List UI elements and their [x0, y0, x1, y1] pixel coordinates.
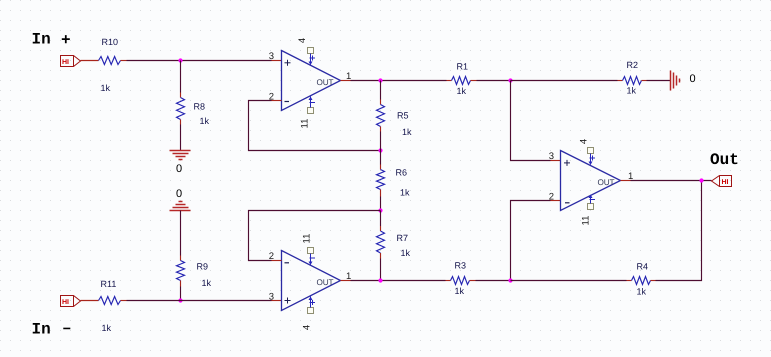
op-amp U1 pin 2 number: [269, 92, 274, 103]
svg-text:1k: 1k: [627, 86, 637, 96]
svg-text:1k: 1k: [101, 83, 111, 93]
op-amp U1 power pin 4: [308, 48, 316, 66]
connector J2 In-: [61, 296, 81, 307]
wire op2 output: [341, 280, 446, 282]
wire R4 to output node: [656, 181, 702, 281]
svg-text:3: 3: [549, 151, 554, 162]
node junction R5/R6: [378, 148, 382, 152]
resistor R7: [377, 231, 411, 259]
svg-text:1k: 1k: [457, 86, 467, 96]
svg-text:R6: R6: [396, 168, 408, 178]
svg-text:R4: R4: [637, 262, 649, 272]
wire R6 to junction: [380, 197, 382, 211]
op-amp U3 pin 11 number: [581, 216, 592, 226]
svg-text:1k: 1k: [202, 278, 212, 288]
node junction op2out/R7: [378, 278, 382, 282]
resistor R9: [177, 261, 212, 289]
svg-text:1k: 1k: [401, 248, 411, 258]
svg-text:OUT: OUT: [317, 78, 334, 87]
svg-text:R1: R1: [457, 62, 469, 72]
wire R5 to junction: [380, 132, 382, 151]
wire op2 pin2 feedback: [249, 211, 381, 261]
resistor R6: [377, 168, 411, 198]
op-amp U2 pin 11 number: [302, 234, 313, 244]
svg-text:4: 4: [579, 139, 590, 144]
svg-text:0: 0: [690, 73, 696, 85]
wire R2 to ground: [647, 80, 671, 82]
connector J1 In+: [61, 56, 81, 67]
wire R9 to In- row: [180, 287, 182, 301]
wire In+ to R10: [81, 60, 99, 62]
node junction Out/R4: [699, 178, 703, 182]
svg-text:HI: HI: [62, 299, 69, 306]
svg-text:In: In: [32, 31, 51, 49]
wire ground to R9: [180, 211, 182, 261]
svg-text:OUT: OUT: [598, 178, 615, 187]
op-amp U2: [282, 251, 341, 311]
op-amp U1 pin 4 number: [297, 38, 308, 43]
svg-text:R8: R8: [194, 102, 206, 112]
resistor R1: [452, 62, 477, 97]
svg-text:4: 4: [297, 38, 308, 43]
node junction In+/R8: [178, 58, 182, 62]
node junction In-/R9: [178, 298, 182, 302]
ground 0 above R9 (flipped): [170, 202, 191, 211]
op-amp U3 power pin 11: [588, 195, 596, 210]
ground 0 label (upper of flipped ground): [176, 188, 182, 200]
wire R10 to op1 pin3: [127, 60, 282, 62]
svg-text:–: –: [62, 320, 72, 338]
node junction R3/R4/op3pin2: [508, 278, 512, 282]
node junction R1/R2/op3pin3: [508, 78, 512, 82]
op-amp U1 pin 11 number: [300, 119, 311, 129]
node junction op1out/R5: [378, 78, 382, 82]
ground 0 label right: [690, 73, 696, 85]
op-amp U3 power pin 4: [588, 148, 596, 166]
op-amp U3 pin 2 number: [549, 192, 554, 203]
wire op1 pin2 feedback: [249, 101, 381, 151]
op-amp U3 pin 3 number: [549, 151, 554, 162]
svg-text:1k: 1k: [402, 127, 412, 137]
svg-text:0: 0: [176, 188, 182, 200]
wire junction to R8: [180, 61, 182, 98]
op-amp U1: [282, 51, 341, 111]
port Out label: [710, 151, 739, 169]
svg-text:HI: HI: [722, 179, 729, 186]
resistor R3: [451, 261, 476, 297]
wire junction to R7: [380, 211, 382, 232]
resistor R4: [632, 262, 656, 297]
op-amp U2 pin 3 number: [269, 292, 274, 303]
svg-text:2: 2: [549, 192, 554, 203]
op-amp U1 pin 3 number: [269, 51, 274, 62]
wire op1out to R1 lead: [447, 80, 452, 82]
svg-text:Out: Out: [710, 151, 739, 169]
wire R1 to junction: [477, 80, 511, 82]
op-amp U3 pin 4 number: [579, 139, 590, 144]
wire op3 output to Out: [621, 180, 712, 182]
svg-text:+: +: [61, 32, 71, 50]
svg-text:R7: R7: [397, 233, 409, 243]
wire In- to R11: [81, 300, 99, 302]
svg-text:R3: R3: [455, 261, 467, 271]
svg-text:R5: R5: [397, 111, 409, 121]
wire junction to R5: [380, 81, 382, 105]
svg-text:1k: 1k: [400, 188, 410, 198]
op-amp U2 pin 4 number: [302, 325, 313, 330]
svg-text:11: 11: [581, 216, 592, 226]
svg-text:R11: R11: [101, 279, 117, 289]
resistor R5: [377, 105, 413, 138]
op-amp U2 pin 1 number: [346, 271, 351, 282]
svg-text:0: 0: [176, 163, 182, 175]
svg-text:R2: R2: [627, 60, 639, 70]
svg-text:R10: R10: [102, 37, 119, 47]
op-amp U3 pin 1 number: [628, 171, 633, 182]
op-amp U1 power pin 11: [308, 97, 316, 114]
wire R7 to op2 output row: [380, 259, 382, 281]
op-amp U1 pin 1 number: [346, 71, 351, 82]
svg-text:HI: HI: [62, 59, 69, 66]
wire op1 output: [341, 80, 447, 82]
wire junction to R2: [511, 80, 623, 82]
port In+ label: [32, 31, 71, 50]
svg-text:1k: 1k: [637, 287, 647, 297]
connector J3 Out: [712, 176, 732, 187]
svg-text:R9: R9: [197, 262, 209, 272]
wire R3 to junction: [476, 280, 511, 282]
svg-text:11: 11: [302, 234, 313, 244]
op-amp U3: [561, 151, 621, 211]
resistor R2: [623, 60, 647, 96]
resistor R10: [99, 37, 127, 93]
svg-text:3: 3: [269, 51, 274, 62]
wire junction to R4: [511, 280, 632, 282]
wire junction to R6: [380, 151, 382, 170]
resistor R11: [99, 279, 127, 333]
svg-text:1k: 1k: [200, 116, 210, 126]
wire to R3 lead: [446, 280, 451, 282]
svg-text:1k: 1k: [455, 286, 465, 296]
port In- label: [32, 320, 72, 339]
svg-text:11: 11: [300, 119, 311, 129]
svg-text:3: 3: [269, 292, 274, 303]
wire op3 pin3 branch: [511, 81, 561, 161]
op-amp U2 power pin 11: [308, 248, 316, 266]
node junction R6/R7: [378, 208, 382, 212]
svg-text:OUT: OUT: [317, 278, 334, 287]
wire R8 to ground: [180, 125, 182, 151]
resistor R8: [177, 98, 210, 127]
ground 0 below R8: [170, 151, 191, 160]
wire R11 to op2 pin3: [127, 300, 282, 302]
wire op3 pin2 branch: [511, 201, 561, 281]
op-amp U2 power pin 4: [308, 297, 316, 314]
ground 0 label: [176, 163, 182, 175]
svg-text:4: 4: [302, 325, 313, 330]
ground 0 right of R2 (rotated): [671, 71, 680, 91]
op-amp U2 pin 2 number: [269, 251, 274, 262]
svg-text:In: In: [32, 321, 51, 339]
svg-text:1k: 1k: [102, 323, 112, 333]
